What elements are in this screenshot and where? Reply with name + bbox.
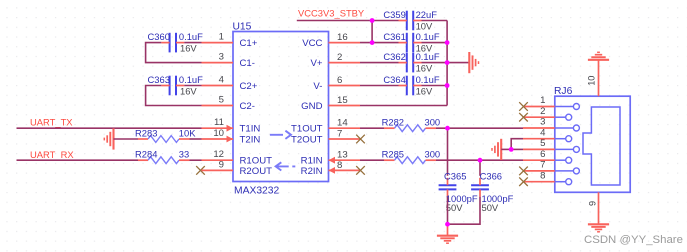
wire R1IN net drop to C366 xyxy=(479,160,481,176)
svg-text:UART_TX: UART_TX xyxy=(30,117,73,128)
svg-text:V-: V- xyxy=(313,81,322,92)
net label UART_RX xyxy=(30,149,74,160)
watermark CSDN @YY_Share xyxy=(584,234,683,246)
no-connect cross U15 pin 8 xyxy=(356,166,365,175)
connector RJ6 pin 1 xyxy=(523,95,579,109)
svg-text:R285: R285 xyxy=(382,149,404,160)
svg-text:R2IN: R2IN xyxy=(301,166,323,177)
power net label VCC3V3_STBY xyxy=(298,7,365,18)
wire UART_TX to U15 pin 11 xyxy=(17,127,202,129)
svg-text:33: 33 xyxy=(179,149,189,160)
connector RJ6 pin 10 shield xyxy=(586,60,598,96)
U15 internal TX direction arrow xyxy=(270,131,291,139)
wire C360 to U15 pin 1 xyxy=(184,42,201,44)
svg-text:C364: C364 xyxy=(383,74,405,85)
wire R285 to RJ6 pin 6 xyxy=(436,159,523,161)
svg-text:T1OUT: T1OUT xyxy=(291,124,323,135)
capacitor C361 0.1uF 16V xyxy=(383,31,439,54)
svg-text:C2+: C2+ xyxy=(240,81,258,92)
wire C359 to ground bus xyxy=(422,20,448,22)
svg-text:R282: R282 xyxy=(382,117,404,128)
wire R284 to U15 pin 12 xyxy=(190,159,202,161)
svg-text:10K: 10K xyxy=(179,127,196,138)
svg-text:3: 3 xyxy=(219,52,224,63)
junction bus row2 xyxy=(445,60,450,65)
wire C361 to ground bus xyxy=(422,42,448,44)
svg-text:1: 1 xyxy=(540,95,545,106)
capacitor C360 0.1uF 16V xyxy=(148,31,204,53)
svg-text:300: 300 xyxy=(425,117,441,128)
svg-text:16V: 16V xyxy=(416,85,433,96)
svg-text:7: 7 xyxy=(337,128,342,139)
svg-text:4: 4 xyxy=(219,75,225,86)
wire junction to RJ6 pin 5 xyxy=(511,148,523,150)
resistor R282 300 xyxy=(382,117,441,132)
wire C363 left plate to U15 pin 5 xyxy=(146,86,202,106)
no-connect cross U15 pin 7 xyxy=(356,135,365,144)
U15 right pin names xyxy=(291,38,323,177)
svg-text:0.1uF: 0.1uF xyxy=(179,31,203,42)
connector RJ6 pin 3 xyxy=(523,117,579,131)
svg-text:VCC: VCC xyxy=(302,38,322,49)
wire ground bus vertical xyxy=(446,21,448,106)
svg-text:C1-: C1- xyxy=(240,58,255,69)
ground earth symbol above RJ6 xyxy=(588,52,609,60)
svg-text:4: 4 xyxy=(540,127,546,138)
junction VCC3V3_STBY rail xyxy=(370,18,375,23)
capacitor C362 0.1uF 16V xyxy=(383,51,439,74)
wire ground bus to earth symbol xyxy=(447,62,469,64)
svg-text:UART_RX: UART_RX xyxy=(30,149,74,160)
svg-text:C360: C360 xyxy=(148,31,170,42)
svg-text:16: 16 xyxy=(337,32,348,43)
connector RJ6 pin 9 shield xyxy=(587,192,598,224)
svg-text:6: 6 xyxy=(540,149,545,160)
svg-text:C362: C362 xyxy=(383,51,405,62)
svg-text:C366: C366 xyxy=(480,171,502,182)
svg-text:5: 5 xyxy=(540,138,545,149)
svg-text:8: 8 xyxy=(540,170,545,181)
net label UART_TX xyxy=(30,117,73,128)
svg-text:0.1uF: 0.1uF xyxy=(416,51,440,62)
capacitor C363 0.1uF 16V xyxy=(148,74,204,97)
svg-text:8: 8 xyxy=(337,160,342,171)
svg-text:10: 10 xyxy=(213,128,224,139)
svg-text:10: 10 xyxy=(586,76,596,86)
connector RJ6 jack profile xyxy=(583,107,620,185)
junction RJ6 pin5 ground xyxy=(509,147,514,152)
svg-text:6: 6 xyxy=(337,75,342,86)
connector RJ6 pin 8 xyxy=(523,170,572,184)
U15 left pin names xyxy=(240,38,273,177)
svg-text:0.1uF: 0.1uF xyxy=(416,74,440,85)
wire ground to R283 xyxy=(114,138,139,140)
ground earth symbol below RJ6 xyxy=(588,224,609,232)
svg-text:C363: C363 xyxy=(148,74,170,85)
svg-text:16V: 16V xyxy=(180,85,197,96)
U15 right pins xyxy=(329,43,361,174)
connector RJ6 pin 6 xyxy=(523,149,572,163)
svg-text:0.1uF: 0.1uF xyxy=(416,31,440,42)
svg-text:T2OUT: T2OUT xyxy=(291,135,323,146)
no-connect cross RJ6 pin 2 xyxy=(519,113,528,122)
svg-text:0.1uF: 0.1uF xyxy=(179,74,203,85)
connector RJ6 pin 2 xyxy=(523,106,572,120)
svg-text:9: 9 xyxy=(587,201,597,206)
wire C366 to bottom ground xyxy=(448,197,481,224)
no-connect cross U15 pin 9 xyxy=(196,166,205,175)
svg-text:50V: 50V xyxy=(446,202,463,213)
wire junction jog to RJ6 pin 4 xyxy=(511,139,523,150)
svg-text:7: 7 xyxy=(540,160,545,171)
svg-text:2: 2 xyxy=(540,106,545,117)
svg-text:16V: 16V xyxy=(416,63,433,74)
svg-text:RJ6: RJ6 xyxy=(554,86,573,97)
wire C365 to bottom ground xyxy=(447,197,449,224)
wire T1OUT net drop to C365 xyxy=(447,128,449,176)
ground earth symbol at cap bus xyxy=(469,52,478,73)
junction R1IN net C366 xyxy=(478,158,483,163)
no-connect cross RJ6 pin 8 xyxy=(519,177,528,186)
no-connect cross RJ6 pin 1 xyxy=(519,102,528,111)
junction bottom ground xyxy=(445,222,450,227)
wire C362 to ground bus xyxy=(422,62,448,64)
svg-text:9: 9 xyxy=(219,159,224,170)
U15 internal RX direction arrow xyxy=(276,162,296,170)
svg-text:5: 5 xyxy=(219,95,224,106)
capacitor C366 1000pF 50V xyxy=(471,171,513,213)
svg-text:14: 14 xyxy=(337,118,348,129)
U15 left pins xyxy=(202,43,234,171)
svg-text:R283: R283 xyxy=(135,127,157,138)
svg-text:VCC3V3_STBY: VCC3V3_STBY xyxy=(298,7,365,18)
svg-text:C361: C361 xyxy=(383,31,405,42)
svg-text:C359: C359 xyxy=(383,9,405,20)
no-connect cross RJ6 pin 7 xyxy=(519,167,528,176)
wire U15 pin 15 GND to ground bus xyxy=(360,105,447,107)
connector RJ6 pin 7 xyxy=(523,160,579,174)
connector RJ6 pin 4 xyxy=(523,127,572,141)
wire ground to RJ6 pin 5 junction xyxy=(501,148,511,150)
ground earth symbol below C365 C366 xyxy=(437,224,458,243)
connector RJ6 body xyxy=(554,86,630,192)
svg-text:CSDN @YY_Share: CSDN @YY_Share xyxy=(584,234,683,246)
svg-text:U15: U15 xyxy=(233,22,252,33)
svg-text:R284: R284 xyxy=(135,149,157,160)
junction pin16 net xyxy=(370,40,375,45)
wire U15 pin 14 to R282 xyxy=(360,127,384,129)
wire VCC3V3_STBY drop to pin 16 net xyxy=(371,21,373,43)
svg-text:C365: C365 xyxy=(444,171,466,182)
svg-text:11: 11 xyxy=(214,117,224,128)
resistor R285 300 xyxy=(382,149,441,164)
svg-text:T1IN: T1IN xyxy=(240,124,261,135)
wire VCC3V3_STBY rail xyxy=(297,20,399,22)
wire U15 pin 2 to C362 xyxy=(360,62,399,64)
ground earth symbol at T2IN xyxy=(104,128,113,149)
svg-text:MAX3232: MAX3232 xyxy=(234,186,279,197)
wire C364 to ground bus xyxy=(422,85,448,87)
junction bus row16 xyxy=(445,40,450,45)
U15 left pin numbers xyxy=(213,32,224,171)
resistor R283 10K xyxy=(135,127,196,142)
wire R282 to RJ6 pin 3 xyxy=(436,127,523,129)
wire UART_RX to R284 xyxy=(17,159,139,161)
resistor R284 33 xyxy=(135,149,190,164)
svg-text:T2IN: T2IN xyxy=(240,135,261,146)
svg-text:R2OUT: R2OUT xyxy=(240,166,273,177)
svg-text:C2-: C2- xyxy=(240,101,255,112)
wire U15 pin 16 to C361 xyxy=(360,42,399,44)
svg-text:1: 1 xyxy=(219,32,224,43)
U15 right pin numbers xyxy=(337,32,348,171)
capacitor C359 22uF 10V xyxy=(383,9,437,32)
svg-text:10V: 10V xyxy=(416,21,433,32)
svg-text:22uF: 22uF xyxy=(416,9,438,20)
capacitor C365 1000pF 50V xyxy=(439,171,478,213)
junction T1OUT net C365 xyxy=(445,126,450,131)
svg-text:300: 300 xyxy=(425,149,441,160)
svg-text:2: 2 xyxy=(337,52,342,63)
svg-text:16V: 16V xyxy=(180,43,197,54)
ground earth symbol at RJ6 pin5 xyxy=(492,139,501,160)
wire C363 to U15 pin 4 xyxy=(184,85,201,87)
svg-text:50V: 50V xyxy=(482,202,499,213)
wire R283 to U15 pin 10 xyxy=(190,138,202,140)
svg-text:3: 3 xyxy=(540,117,545,128)
wire U15 pin 13 to R285 xyxy=(360,159,384,161)
svg-text:15: 15 xyxy=(337,95,348,106)
op-amp/IC U15 MAX3232 body xyxy=(233,22,329,197)
junction bus row6 xyxy=(445,83,450,88)
svg-text:C1+: C1+ xyxy=(240,38,258,49)
connector RJ6 pin 5 xyxy=(523,138,579,152)
wire C360 left plate to U15 pin 3 xyxy=(146,43,202,63)
capacitor C364 0.1uF 16V xyxy=(383,74,439,97)
wire U15 pin 6 to C364 xyxy=(360,85,399,87)
svg-text:GND: GND xyxy=(301,101,322,112)
svg-text:V+: V+ xyxy=(310,58,322,69)
